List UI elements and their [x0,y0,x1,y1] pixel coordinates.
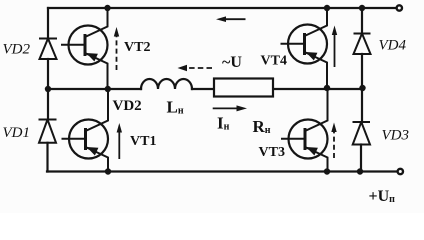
svg-text:VT4: VT4 [261,54,287,69]
svg-text:VD2: VD2 [3,42,31,58]
svg-text:VT3: VT3 [259,145,285,160]
svg-text:VD1: VD1 [3,125,31,141]
svg-text:Iн: Iн [217,114,230,133]
svg-text:VD4: VD4 [379,38,407,54]
svg-text:Lн: Lн [167,98,184,117]
svg-text:VD3: VD3 [382,127,410,143]
svg-text:VT2: VT2 [124,40,150,55]
svg-text:VD2: VD2 [113,98,142,114]
svg-text:VT1: VT1 [130,134,156,149]
svg-text:+Uп: +Uп [369,188,396,205]
svg-text:~U: ~U [222,54,242,71]
svg-text:Rн: Rн [253,117,271,136]
